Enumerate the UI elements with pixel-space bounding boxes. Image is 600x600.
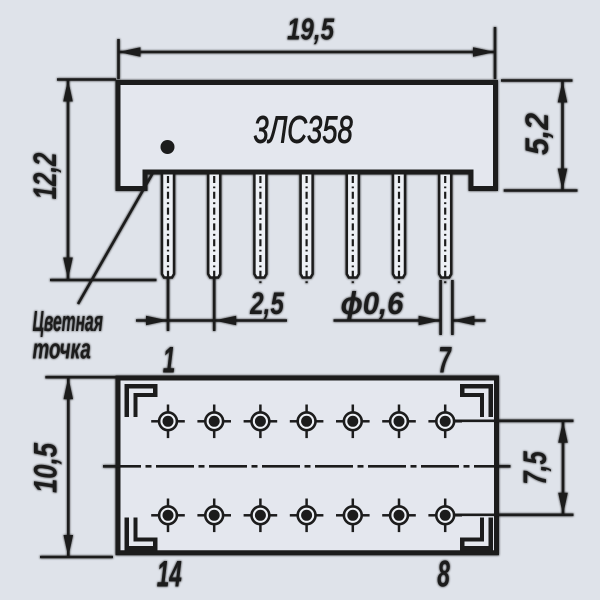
- svg-text:10,5: 10,5: [28, 442, 65, 493]
- svg-text:8: 8: [437, 554, 450, 595]
- svg-text:14: 14: [157, 554, 182, 595]
- svg-text:3ЛС358: 3ЛС358: [253, 109, 353, 151]
- svg-text:5,2: 5,2: [519, 112, 555, 155]
- svg-text:1: 1: [163, 340, 176, 381]
- svg-text:Цветная: Цветная: [33, 305, 104, 337]
- svg-text:19,5: 19,5: [287, 12, 335, 47]
- svg-text:12,2: 12,2: [28, 153, 64, 200]
- svg-text:7: 7: [438, 340, 452, 381]
- svg-text:7,5: 7,5: [518, 450, 554, 484]
- svg-text:ϕ0,6: ϕ0,6: [341, 286, 405, 321]
- svg-text:точка: точка: [33, 333, 91, 365]
- svg-text:2,5: 2,5: [249, 286, 284, 321]
